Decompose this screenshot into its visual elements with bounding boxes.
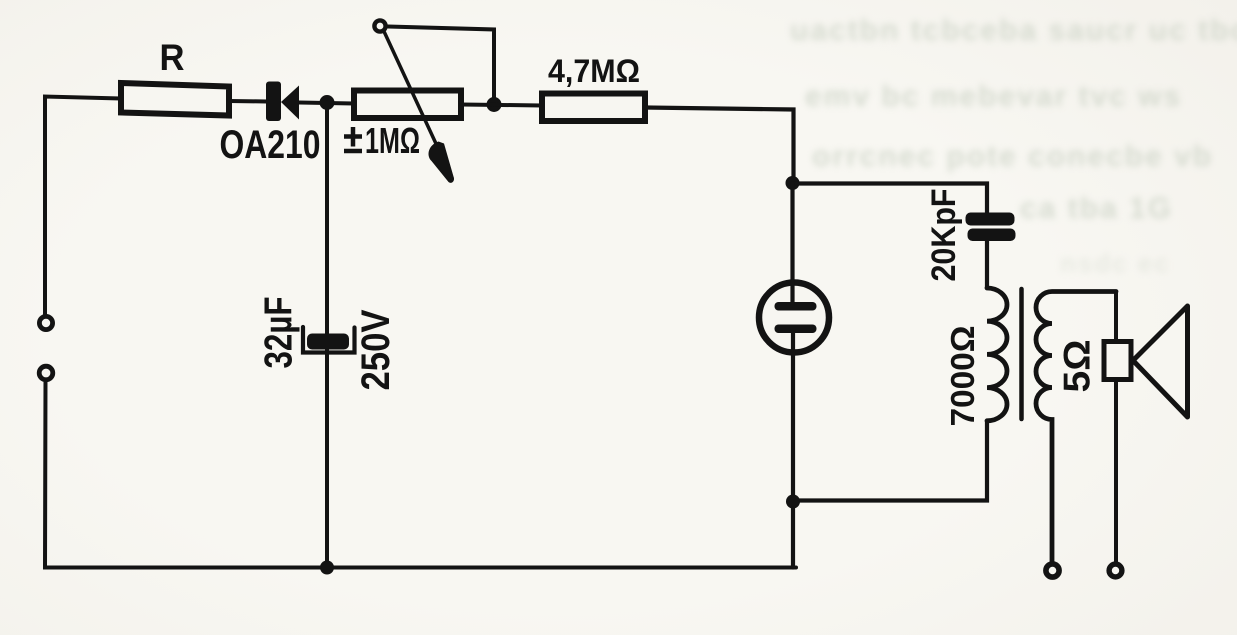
faint reverse-page bleed-through text — [790, 14, 1237, 48]
node junction dot tube cathode / primary return — [786, 495, 800, 509]
svg-text:4,7MΩ: 4,7MΩ — [548, 53, 640, 89]
input terminal (upper) — [39, 316, 52, 329]
svg-text:R: R — [160, 37, 185, 78]
diode D1 OA210 cathode bar — [266, 82, 281, 122]
wire left lower: from lower input terminal down to bottom rail — [45, 381, 796, 568]
node junction dot top of tube branch — [786, 176, 800, 190]
wire left upper: input top terminal up to top-left corner and right to R — [45, 97, 121, 315]
potentiometer P1 body ±1MΩ — [354, 91, 461, 119]
wire tube top lead — [790, 184, 794, 306]
resistor R2 4,7MΩ body — [542, 94, 645, 122]
node junction dot on bottom rail — [320, 561, 334, 575]
potentiometer wiper arrowhead (teardrop) — [429, 142, 455, 183]
speaker LS1 horn triangle — [1133, 306, 1188, 417]
label ±1MΩ (plus-minus drawn) — [344, 127, 362, 151]
svg-text:32µF: 32µF — [258, 297, 301, 369]
wire pot to 4,7M resistor — [461, 105, 542, 106]
svg-text:5Ω: 5Ω — [1057, 340, 1098, 393]
svg-text:1MΩ: 1MΩ — [365, 120, 420, 161]
svg-text:7000Ω: 7000Ω — [944, 326, 981, 427]
wire junction to 20KpF capacitor branch — [793, 184, 988, 214]
tube V1 envelope circle — [759, 283, 829, 353]
potentiometer wiper arm line — [385, 33, 439, 149]
diode D1 OA210 anode triangle — [281, 86, 299, 120]
svg-text:OA210: OA210 — [220, 123, 321, 167]
wire tube bottom lead to bottom rail — [791, 329, 795, 568]
node junction dot at diode output — [320, 95, 335, 110]
tube V1 cathode plate (bottom bar) — [775, 325, 817, 334]
node junction dot right of pot — [487, 97, 502, 112]
wire vertical from junction down through capacitor to bottom rail — [325, 103, 329, 568]
capacitor C2 20KpF top plate — [966, 213, 1015, 226]
wire speaker branch down — [1114, 292, 1118, 563]
output terminal left — [1046, 564, 1059, 577]
tube V1 anode plate (top bar) — [775, 302, 817, 311]
wire from wiper terminal to right end of pot — [388, 27, 494, 105]
capacitor C2 20KpF bottom plate — [968, 229, 1016, 242]
wire 4,7M to right corner and down — [645, 108, 794, 181]
wire cap to transformer primary — [985, 241, 989, 288]
transformer T1 secondary winding 5Ω and top wire to speaker — [1036, 292, 1116, 563]
svg-text:250V: 250V — [354, 309, 398, 390]
input terminal (lower) — [39, 366, 53, 380]
wire primary bottom down and left to tube cathode node — [793, 421, 987, 501]
output terminal right — [1109, 564, 1122, 577]
wire R to diode — [229, 99, 267, 104]
transformer T1 core — [1019, 289, 1024, 419]
svg-text:20KpF: 20KpF — [925, 189, 963, 282]
resistor R body — [121, 83, 229, 116]
capacitor C1 electrolytic bracket (cathode) — [303, 327, 355, 353]
capacitor C1 electrolytic anode plate — [307, 334, 349, 350]
potentiometer top terminal circle — [374, 20, 385, 31]
speaker LS1 box — [1104, 342, 1131, 380]
transformer T1 primary winding 7000Ω — [987, 288, 1007, 421]
wire diode to potentiometer — [299, 103, 354, 104]
